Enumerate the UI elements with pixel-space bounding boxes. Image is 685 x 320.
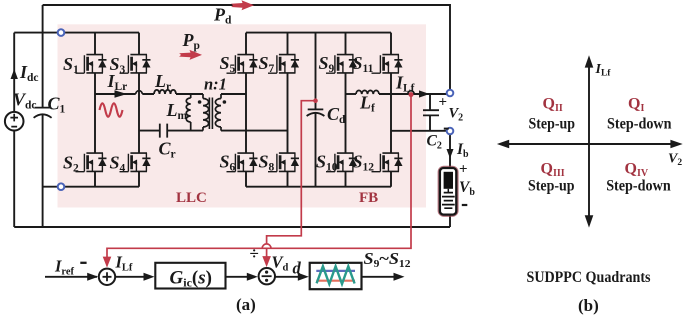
- svg-text:Ib: Ib: [456, 141, 469, 160]
- svg-text:V2: V2: [668, 152, 682, 169]
- svg-text:Pd: Pd: [213, 5, 232, 27]
- svg-text:Step-down: Step-down: [606, 178, 671, 195]
- svg-text:Step-up: Step-up: [528, 178, 575, 195]
- svg-text:+: +: [459, 162, 468, 178]
- svg-text:LLC: LLC: [176, 190, 207, 206]
- svg-text:Vdc: Vdc: [13, 90, 37, 112]
- svg-text:n:1: n:1: [204, 75, 227, 94]
- svg-text:Step-down: Step-down: [607, 116, 672, 133]
- svg-text:QII: QII: [543, 96, 563, 115]
- svg-text:+: +: [439, 95, 448, 111]
- svg-text:QIV: QIV: [625, 161, 649, 180]
- svg-text:ILf: ILf: [595, 62, 612, 79]
- svg-text:C2: C2: [427, 133, 442, 152]
- svg-text:Gic(s): Gic(s): [170, 267, 212, 289]
- svg-text:S9~S12: S9~S12: [364, 249, 411, 270]
- svg-text:Vb: Vb: [459, 179, 475, 198]
- svg-text:SUDPPC Quadrants: SUDPPC Quadrants: [527, 269, 651, 286]
- svg-text:d: d: [293, 259, 302, 278]
- svg-text:Vd: Vd: [272, 253, 289, 274]
- svg-text:÷: ÷: [250, 244, 259, 263]
- svg-text:QI: QI: [628, 96, 644, 115]
- svg-text:V2: V2: [449, 106, 464, 124]
- svg-text:FB: FB: [359, 190, 378, 206]
- svg-text:Step-up: Step-up: [529, 116, 576, 133]
- svg-text:(b): (b): [578, 296, 599, 315]
- svg-text:(a): (a): [236, 295, 256, 314]
- svg-text:Idc: Idc: [19, 62, 39, 84]
- svg-text:ILf: ILf: [115, 253, 133, 274]
- svg-text:Iref: Iref: [54, 257, 75, 278]
- svg-text:QIII: QIII: [541, 161, 565, 180]
